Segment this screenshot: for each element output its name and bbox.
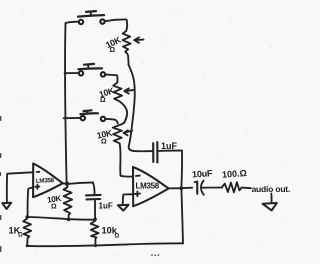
wire U1 output to C2 top [63,182,95,195]
wire U1 - input to ground [7,172,33,203]
wire R4 to audio out [242,187,251,190]
resistor R2 1K [23,217,31,246]
op-amp U1 LM358 [33,164,63,198]
svg-text:Ω: Ω [51,204,57,211]
potentiometer P1 10K [123,31,144,65]
switch S2 [65,64,106,77]
capacitor C3 10uF [197,181,204,195]
ground GND2 [118,205,129,211]
node rail dots [67,218,71,222]
switch S1 [66,11,105,24]
svg-text:Ω: Ω [101,139,107,146]
wire S2 to pot P2 [106,74,118,82]
svg-text:Ω: Ω [115,234,120,240]
svg-text:1uF: 1uF [99,202,113,211]
wire node rail [27,217,95,220]
paper speckle [22,5,286,256]
wire left bus from op-amp U1 output up to switches [65,23,67,183]
node junction dot U2 out [179,186,183,190]
svg-text:LM358: LM358 [36,177,55,185]
wire S1 to R-pot P1 [105,19,127,31]
resistor R4 100ohm [222,182,242,192]
wire feedback vertical C1 to U2 output [180,151,183,188]
svg-text:100.Ω: 100.Ω [222,168,247,180]
wire S3 to pot P3 [106,119,118,124]
svg-text:Ω: Ω [110,47,116,54]
wire U1 + input down to rail [28,188,33,217]
op-amp U2 LM358 [133,167,169,206]
bottom rail junction dots [26,244,29,247]
ground GND1 [2,203,11,209]
svg-text:Ω: Ω [100,97,106,104]
wire P3 bottom down to U2 inverting input [120,143,133,176]
ground GND3 [263,194,277,211]
capacitor C2 1uF [86,195,101,219]
capacitor C3 plate top tick [195,181,198,183]
capacitor C1 1uF [153,142,157,162]
wire bottom rail [27,243,183,246]
wire node to capacitor C1 [133,150,152,152]
node junction dot U1 out [65,182,69,186]
wire P2 bottom to pot P3 top [120,101,128,122]
svg-text:10uF: 10uF [192,168,214,179]
svg-text:audio out.: audio out. [252,184,291,194]
wire bus P1 bottom down past wiper arrows to C1 node [129,65,135,151]
resistor R3 10K [91,220,99,246]
wire U2 + input to ground [123,194,133,205]
resistor R1 10K feedback [64,186,73,220]
dots ... [151,254,159,256]
wire C1 right to feedback line [158,150,182,152]
svg-text:Ω: Ω [18,233,23,239]
scan edge artifacts [0,116,1,252]
wire feedback vertical to bottom rail [181,188,183,243]
potentiometer P3 10K [113,123,132,144]
svg-text:LM358: LM358 [136,182,160,191]
wire U2 output to junction [169,187,193,190]
wire C3 to resistor R4 [203,187,222,189]
svg-text:1uF: 1uF [161,141,178,151]
switch S3 [64,110,106,121]
potentiometer P2 10K [113,83,134,102]
